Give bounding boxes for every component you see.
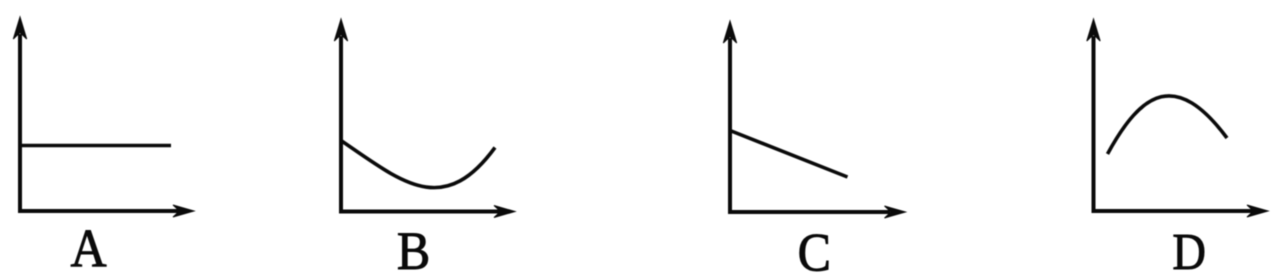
graph D y-axis [1092,36,1096,212]
graph B y-axis [339,36,343,213]
graph A y-axis [18,34,22,212]
svg-text:C: C [798,224,831,273]
graph C y-axis [728,38,732,213]
graph B x-axis [339,210,500,214]
graph C x-axis arrowhead [885,206,906,218]
graph D x-axis arrowhead [1247,205,1268,217]
graph C descending line [730,131,848,178]
graph A x-axis [18,209,179,213]
svg-text:A: A [70,220,106,273]
graph D y-axis arrowhead [1087,19,1100,41]
graph B x-axis arrowhead [494,206,515,218]
graph A y-axis arrowhead [13,17,26,39]
svg-text:D: D [1172,223,1206,273]
graph C x-axis [728,210,890,214]
graph C y-axis arrowhead [723,21,736,43]
graph B y-axis arrowhead [334,19,347,41]
svg-text:B: B [397,223,430,273]
graph D curve (hump) [1108,96,1228,154]
graph A x-axis arrowhead [173,205,194,217]
graph B curve (dip) [341,141,495,188]
graph D x-axis [1092,209,1254,213]
graph A constant line [20,144,171,148]
